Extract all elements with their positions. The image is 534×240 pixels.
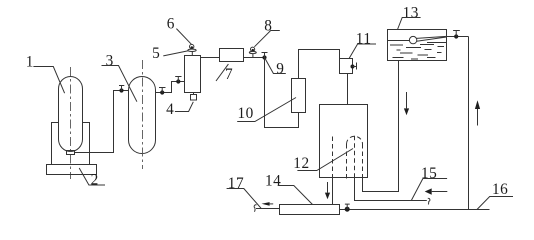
pipe from 7 to junction 9: [244, 57, 265, 59]
svg-text:3: 3: [106, 52, 114, 69]
base tray 2: [47, 165, 97, 175]
label 3: [102, 52, 137, 101]
flow arrow left at inlet 15: [425, 188, 448, 194]
svg-text:15: 15: [421, 165, 437, 182]
flow arrow down at vessel outlet: [325, 182, 330, 199]
outlet fitting of cylinder 1: [67, 151, 75, 155]
label 8: [254, 18, 279, 47]
junction valve on bottom pipe: [345, 204, 350, 212]
bell left leg dashed: [346, 144, 348, 181]
flow arrow up on riser: [475, 100, 480, 125]
drain plug 4: [191, 93, 197, 101]
label 17: [227, 175, 261, 208]
water jacket around cylinder 1: [52, 123, 90, 165]
pipe from cylinder 1 outlet to cylinder 3: [75, 91, 129, 153]
centerline of cylinder 3: [142, 60, 144, 169]
return pipe from tank 13 to vessel 12: [363, 61, 399, 192]
valve 8: [249, 47, 256, 57]
label 9: [265, 58, 286, 78]
label 7: [216, 64, 233, 83]
label 12: [293, 149, 353, 173]
svg-text:16: 16: [492, 181, 508, 198]
internal outlet tube dashed: [332, 137, 334, 179]
svg-text:8: 8: [264, 18, 272, 35]
svg-text:2: 2: [91, 172, 99, 189]
internal dip tube dashed: [354, 136, 356, 181]
label 11: [349, 31, 376, 59]
svg-text:5: 5: [152, 45, 160, 62]
label 1: [26, 53, 65, 93]
label 10: [237, 98, 296, 123]
absorber vessel 12: [320, 105, 368, 178]
flow arrow down on tank drain: [404, 92, 409, 115]
outlet pipe from 12 to coil 14: [332, 178, 334, 205]
flow arrow left at outlet 17: [262, 202, 274, 206]
label 4: [166, 101, 193, 118]
label 16: [477, 181, 513, 209]
label 14: [265, 172, 312, 204]
coil box 14: [280, 205, 340, 215]
liquid level dashes: [390, 43, 447, 60]
pipe break curl at 17: [254, 205, 256, 212]
svg-text:10: 10: [238, 105, 254, 122]
inlet pipe 15: [355, 178, 427, 201]
humidifier 10: [292, 79, 306, 113]
svg-text:17: 17: [228, 175, 244, 192]
junction at tank outlet: [447, 31, 469, 39]
svg-text:4: 4: [166, 101, 174, 118]
label 6: [167, 15, 192, 44]
svg-text:6: 6: [167, 15, 175, 32]
pipe from junction 9 down to humidifier 10: [265, 58, 299, 128]
float ball: [409, 36, 416, 43]
riser pipe right side: [468, 37, 470, 210]
float pointer lines: [416, 36, 446, 41]
centerline of cylinder 1: [70, 67, 72, 179]
svg-text:9: 9: [276, 60, 284, 77]
pipe from cylinder 3 to purifier 5: [156, 82, 185, 93]
pressure regulator 6: [188, 44, 196, 55]
pipe from 11 to absorber 12: [347, 74, 349, 105]
valve on cylinder 3 inlet: [119, 86, 124, 93]
pipe break hook at 15: [428, 198, 430, 204]
internal bubbler bell dashed: [347, 136, 363, 144]
outlet pipe left with break: [256, 208, 280, 210]
tank divider line: [388, 40, 410, 42]
valve 11: [340, 59, 357, 74]
label 5: [152, 45, 188, 62]
svg-text:14: 14: [265, 172, 281, 189]
bell right leg dashed: [362, 144, 364, 181]
svg-text:7: 7: [225, 66, 233, 83]
svg-text:11: 11: [356, 31, 372, 48]
pipe from 5 to flowmeter 7: [201, 57, 220, 59]
gas cylinder 1: [59, 77, 83, 152]
svg-text:12: 12: [293, 155, 309, 172]
svg-text:13: 13: [403, 5, 419, 22]
label 15: [411, 165, 447, 200]
label 13: [398, 5, 421, 30]
valve before purifier 5: [175, 77, 181, 84]
valve on cylinder 3 outlet: [159, 88, 166, 95]
flowmeter 7: [220, 49, 244, 62]
label 2: [79, 168, 105, 189]
purifier column 5: [185, 56, 201, 93]
bottom pipe to 16: [340, 209, 490, 211]
svg-text:1: 1: [26, 53, 34, 70]
gas cylinder 3: [129, 77, 156, 154]
pipe from 10 up to valve 11: [299, 50, 340, 79]
water tank 13: [388, 30, 447, 61]
junction node 9: [262, 53, 268, 60]
